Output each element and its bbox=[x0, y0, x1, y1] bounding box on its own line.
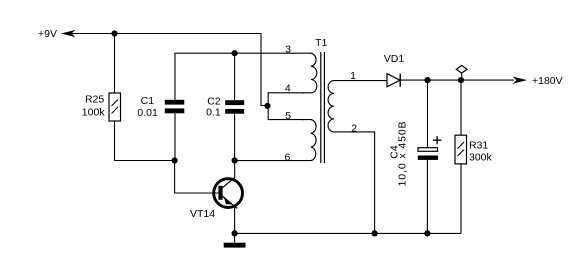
pin label 5 bbox=[285, 110, 291, 122]
junction node R31 top bbox=[458, 77, 464, 83]
capacitor C4 (electrolytic) bbox=[418, 148, 438, 160]
capacitor C1 bbox=[165, 100, 185, 114]
wire +9V rail to transformer tap bbox=[71, 34, 265, 106]
ground bbox=[224, 243, 246, 248]
transformer T1 secondary winding (pins 1-2) bbox=[328, 81, 387, 234]
label R25 100k bbox=[82, 93, 106, 118]
transistor VT14 bbox=[214, 177, 243, 208]
svg-text:+9V: +9V bbox=[38, 28, 57, 40]
svg-text:0.1: 0.1 bbox=[206, 107, 221, 119]
svg-text:0.01: 0.01 bbox=[137, 107, 158, 119]
label VD1 bbox=[384, 53, 405, 65]
svg-text:4: 4 bbox=[285, 83, 291, 95]
svg-text:R31: R31 bbox=[469, 140, 488, 152]
svg-text:C2: C2 bbox=[207, 95, 221, 107]
wire R25 top lead bbox=[114, 34, 116, 94]
net +180V arrowhead bbox=[513, 77, 528, 84]
label R31 300k bbox=[469, 140, 493, 164]
diode VD1 bbox=[387, 74, 400, 87]
svg-text:C1: C1 bbox=[141, 95, 155, 107]
capacitor C2 bbox=[225, 100, 244, 114]
wire R31 bottom lead to ground rail bbox=[460, 164, 462, 234]
pin label 2 bbox=[351, 122, 357, 134]
pin label 3 bbox=[285, 43, 291, 55]
svg-text:5: 5 bbox=[285, 110, 291, 122]
net +9V label bbox=[38, 28, 57, 40]
wire ground rail bbox=[235, 232, 461, 234]
pin label 4 bbox=[285, 83, 291, 95]
svg-text:VD1: VD1 bbox=[384, 53, 405, 65]
wire VT14 emitter lead bbox=[234, 208, 236, 243]
wire R31 top lead bbox=[460, 80, 462, 135]
svg-text:3: 3 bbox=[285, 43, 291, 55]
net +180V label bbox=[532, 75, 563, 87]
node A junction (R25/C1/base) bbox=[172, 157, 178, 163]
wire pin4-pin5 bracket bbox=[268, 93, 304, 120]
svg-text:100k: 100k bbox=[82, 107, 106, 119]
terminal diamond bbox=[456, 66, 467, 78]
svg-text:VT14: VT14 bbox=[190, 208, 215, 220]
svg-text:T1: T1 bbox=[315, 37, 327, 49]
resistor R25 bbox=[109, 93, 121, 121]
junction node B (C2/collector/pin6) bbox=[232, 157, 238, 163]
label C1 0.01 bbox=[137, 95, 158, 119]
wire C2 bottom lead bbox=[234, 114, 236, 161]
junction node C4 top bbox=[424, 77, 430, 83]
junction node C2 top on pin3 line bbox=[232, 50, 238, 56]
transformer T1 primary upper winding (pins 3-4) bbox=[302, 53, 317, 93]
svg-text:300k: 300k bbox=[469, 151, 493, 163]
svg-text:1: 1 bbox=[350, 70, 356, 82]
wire R25 bottom to node A bbox=[115, 121, 175, 161]
label 10,0 x 450B bbox=[396, 121, 408, 187]
wire C1 bottom lead bbox=[174, 113, 176, 160]
svg-text:R25: R25 bbox=[85, 93, 104, 105]
junction node at R25 top bbox=[111, 30, 117, 36]
transformer T1 label bbox=[315, 37, 327, 49]
wire C2 top lead bbox=[234, 53, 236, 100]
svg-text:6: 6 bbox=[284, 151, 290, 163]
junction node C4 bottom bbox=[424, 230, 430, 236]
pin label 6 bbox=[284, 151, 290, 163]
label C4 bbox=[389, 145, 401, 159]
wire base path to VT14 bbox=[175, 161, 219, 194]
transformer T1 primary lower winding (pins 5-6) bbox=[302, 120, 316, 161]
wire VD1 cathode to +180V bbox=[400, 79, 514, 81]
junction node pin2 on rail bbox=[372, 230, 378, 236]
pin label 1 bbox=[350, 70, 356, 82]
transformer T1 core bbox=[321, 52, 325, 163]
svg-text:2: 2 bbox=[351, 122, 357, 134]
wire C4 top lead bbox=[427, 80, 429, 148]
wire C1 top lead and pin3 line bbox=[175, 53, 302, 100]
resistor R31 bbox=[455, 135, 467, 164]
label VT14 bbox=[190, 208, 215, 220]
wire C4 bottom lead bbox=[426, 160, 428, 234]
label C2 0.1 bbox=[206, 95, 221, 118]
junction node emitter/ground rail bbox=[232, 230, 238, 236]
wire pin6 line bbox=[235, 160, 302, 162]
C4 polarity plus sign bbox=[433, 136, 441, 144]
junction node tap (pins 4-5) bbox=[264, 103, 270, 109]
wire VT14 collector lead bbox=[234, 161, 236, 178]
net +9V arrowhead bbox=[61, 30, 76, 37]
svg-text:+180V: +180V bbox=[532, 75, 563, 87]
svg-text:10,0 x 450B: 10,0 x 450B bbox=[396, 121, 408, 187]
